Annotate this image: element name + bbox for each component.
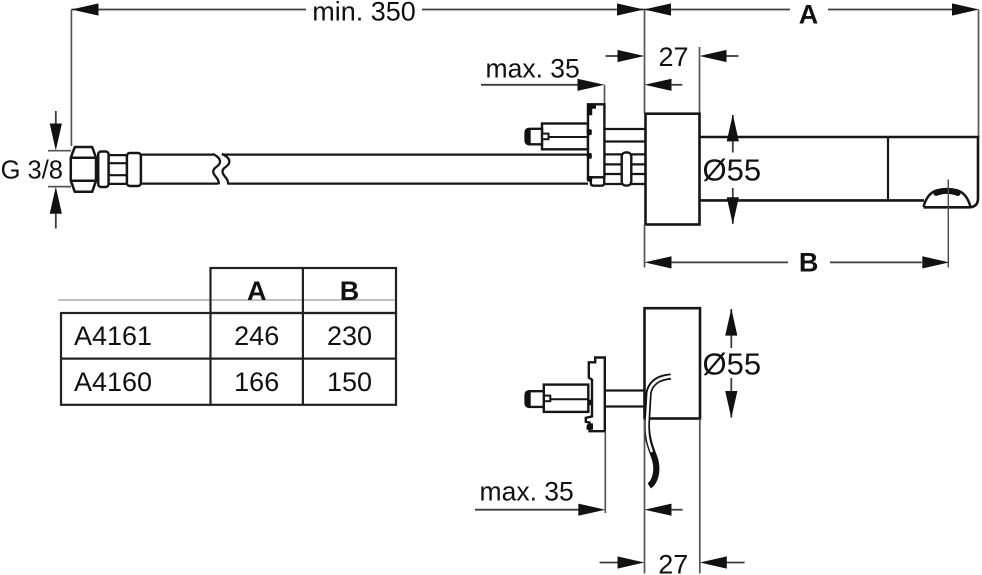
plate junction wedge lower <box>587 176 592 182</box>
dimension Ø55 (top) <box>732 115 734 224</box>
dimension 27 (bottom) <box>600 562 745 564</box>
hose collar 2 <box>127 153 141 186</box>
spout end cap division <box>887 137 889 200</box>
svg-text:B: B <box>340 276 360 306</box>
spindle shaft (top view) <box>542 124 588 150</box>
svg-text:A4161: A4161 <box>74 321 152 351</box>
mounting plate (top view) <box>588 104 604 177</box>
hose nipple lines (top view) <box>604 154 645 184</box>
threaded rod (bottom view) <box>605 391 645 407</box>
cable (bottom view) <box>647 377 671 486</box>
svg-text:max. 35: max. 35 <box>486 54 580 84</box>
hex nut G3/8 <box>71 147 96 192</box>
svg-text:150: 150 <box>327 367 372 397</box>
mounting plate foot tab (top view) <box>591 177 604 185</box>
spindle head (bottom view) <box>526 391 544 407</box>
svg-text:27: 27 <box>658 42 688 72</box>
extension line plate face (bottom view) <box>604 432 606 514</box>
spout body outline <box>700 137 979 207</box>
dimension A right arrow <box>952 3 979 15</box>
spout bottom line <box>700 199 925 202</box>
extension line wall face <box>644 10 646 114</box>
table faint scan line above rows <box>58 299 396 301</box>
extension line flange right (bottom view) <box>699 419 701 574</box>
extension line wall (bottom view) <box>644 419 646 574</box>
svg-text:27: 27 <box>658 549 688 575</box>
spindle head black face (bottom view) <box>524 390 530 407</box>
dimension Ø55 (bottom) <box>730 309 732 418</box>
spindle shaft (bottom view) <box>544 385 589 412</box>
svg-text:min. 350: min. 350 <box>312 0 416 26</box>
hose collar 1 <box>98 152 108 188</box>
svg-text:Ø55: Ø55 <box>702 153 761 188</box>
dimension min. 350 right arrow <box>617 3 644 15</box>
spindle slot notch (top view) <box>542 134 549 140</box>
hose crimp section <box>109 155 128 184</box>
hose nipple collar ring (top view) <box>622 152 632 185</box>
svg-text:230: 230 <box>327 321 372 351</box>
svg-text:Ø55: Ø55 <box>702 347 761 382</box>
spindle slot line (bottom view) <box>549 398 589 400</box>
plate black notch (bottom view, middle) <box>588 400 593 406</box>
extension line flange right (top) <box>699 47 701 114</box>
dimension 27 (top) <box>606 55 739 57</box>
dimension A line <box>644 9 952 11</box>
mounting plate (bottom view) <box>586 358 605 432</box>
spindle head (top view) <box>526 129 542 145</box>
mounting plate clip (black, top-left) <box>587 104 596 115</box>
extension line left (at hose nut) <box>70 10 72 147</box>
cable white core <box>647 376 672 452</box>
dimension max. 35 (bottom) <box>475 509 579 511</box>
svg-text:B: B <box>799 247 819 277</box>
aerator dark top <box>936 191 958 193</box>
wall flange (top view) <box>646 114 700 225</box>
hose tube <box>141 155 588 184</box>
svg-text:A: A <box>799 0 819 29</box>
aerator dome <box>924 189 971 207</box>
aerator centerline / extension <box>947 180 949 268</box>
extension line flange left lower <box>644 225 646 268</box>
dimension G 3/8 upper arrow <box>55 111 57 126</box>
svg-text:A4160: A4160 <box>74 367 152 397</box>
svg-text:max. 35: max. 35 <box>480 476 574 506</box>
hose break symbol <box>213 154 230 185</box>
plate junction wedge middle <box>587 153 592 159</box>
svg-text:G 3/8: G 3/8 <box>1 157 63 185</box>
dimension max. 35 (top) <box>481 84 578 86</box>
svg-text:166: 166 <box>234 367 279 397</box>
dimension B line <box>671 261 922 263</box>
spindle head black face (top view) <box>524 128 530 145</box>
valve upper pipe to wall (top view) <box>604 129 645 142</box>
extension line plate face (top) <box>604 85 606 104</box>
wall flange (bottom view) <box>645 308 701 418</box>
plate junction wedge upper <box>587 129 592 135</box>
plate black hook (bottom view, lower) <box>587 423 594 429</box>
table body rows <box>61 313 396 405</box>
svg-text:246: 246 <box>234 321 279 351</box>
spindle slot notch (bottom view) <box>544 396 551 402</box>
spindle slot line (top view) <box>549 136 589 138</box>
dimension min. 350 line <box>71 9 644 11</box>
dimension A left arrow <box>644 3 671 15</box>
extension line spout end <box>978 10 980 138</box>
dimension min. 350 left arrow <box>71 3 98 15</box>
dimension G 3/8 lower arrow <box>48 186 71 188</box>
table header box <box>211 268 397 313</box>
svg-text:A: A <box>247 276 267 306</box>
